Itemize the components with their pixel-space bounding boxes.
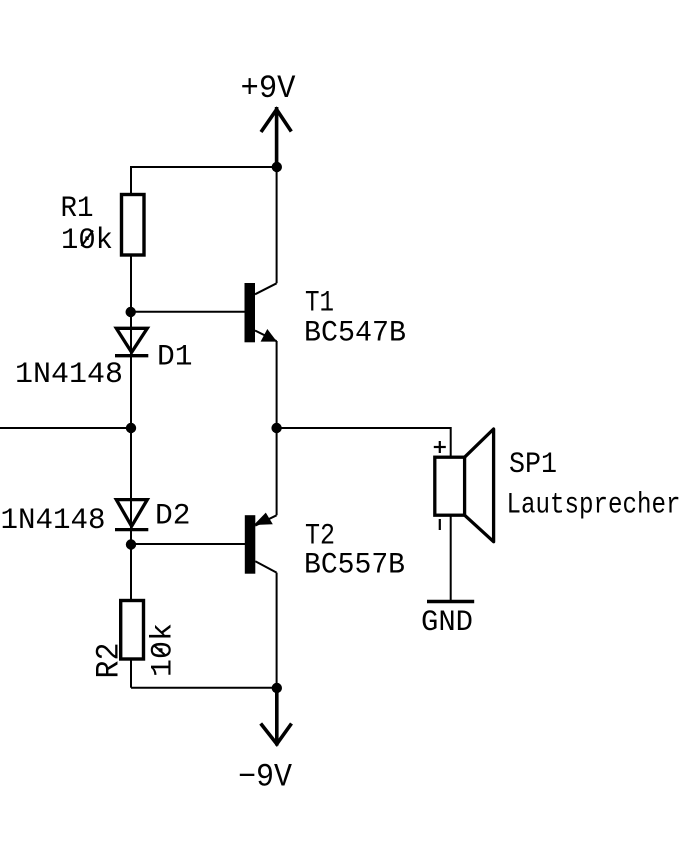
wire R2 bottom	[130, 659, 132, 688]
svg-text:D1: D1	[157, 341, 193, 375]
node junction dot input	[126, 423, 136, 433]
svg-text:R1: R1	[61, 192, 94, 226]
svg-text:BC557B: BC557B	[304, 549, 405, 583]
speaker SP1 box	[435, 457, 465, 515]
wire from R1 top to +9V node	[131, 166, 277, 168]
wire input from left edge	[0, 427, 131, 429]
speaker plus pin mark	[434, 441, 446, 453]
transistor T1 collector	[255, 167, 277, 294]
svg-text:R2: R2	[91, 643, 128, 679]
transistor T2 emitter with arrow	[254, 428, 277, 526]
power symbol -9V arrow	[261, 688, 292, 746]
svg-text:1N4148: 1N4148	[1, 504, 106, 538]
wire base of T1	[131, 311, 245, 313]
wire through diode D1	[130, 312, 132, 428]
transistor T1 base bar	[245, 283, 256, 342]
transistor T2 base bar	[245, 515, 256, 574]
power symbol +9V arrow	[261, 107, 291, 167]
svg-text:10k: 10k	[61, 224, 113, 258]
node junction dot below D2	[126, 539, 136, 549]
svg-text:+9V: +9V	[241, 70, 297, 107]
diode D2	[115, 500, 148, 530]
slash of zero in R1 10k	[82, 231, 94, 247]
diode D1	[115, 328, 148, 355]
wire through diode D2	[130, 428, 132, 545]
wire R1 top stub	[130, 166, 132, 195]
svg-text:1N4148: 1N4148	[15, 358, 123, 392]
svg-text:T1: T1	[305, 287, 334, 321]
wire R1 bottom to D1 node	[130, 255, 132, 312]
svg-text:Lautsprecher: Lautsprecher	[507, 489, 681, 523]
node junction dot at +9V rail	[272, 162, 282, 172]
svg-text:−9V: −9V	[238, 759, 293, 796]
slash of zero in R2 10k	[154, 645, 165, 655]
speaker minus pin mark	[439, 519, 441, 530]
wire bottom horizontal to -9V node	[131, 687, 277, 689]
node junction dot at -9V rail	[272, 683, 282, 693]
svg-text:GND: GND	[421, 606, 473, 640]
node junction dot above D1	[126, 307, 136, 317]
ground symbol	[427, 600, 474, 604]
wire speaker to ground	[450, 514, 452, 602]
wire output to speaker	[277, 427, 451, 458]
resistor R1	[122, 195, 145, 256]
speaker SP1 horn	[465, 429, 494, 542]
resistor R2	[121, 601, 144, 660]
svg-text:10k: 10k	[147, 623, 181, 677]
wire D2 node to R2	[130, 545, 132, 602]
svg-text:SP1: SP1	[509, 448, 557, 482]
svg-text:BC547B: BC547B	[304, 317, 406, 351]
transistor T2 collector	[255, 561, 276, 688]
node junction dot output	[271, 423, 281, 433]
transistor T1 emitter with arrow	[255, 329, 277, 428]
wire base of T2	[131, 543, 245, 545]
svg-text:D2: D2	[155, 500, 191, 534]
